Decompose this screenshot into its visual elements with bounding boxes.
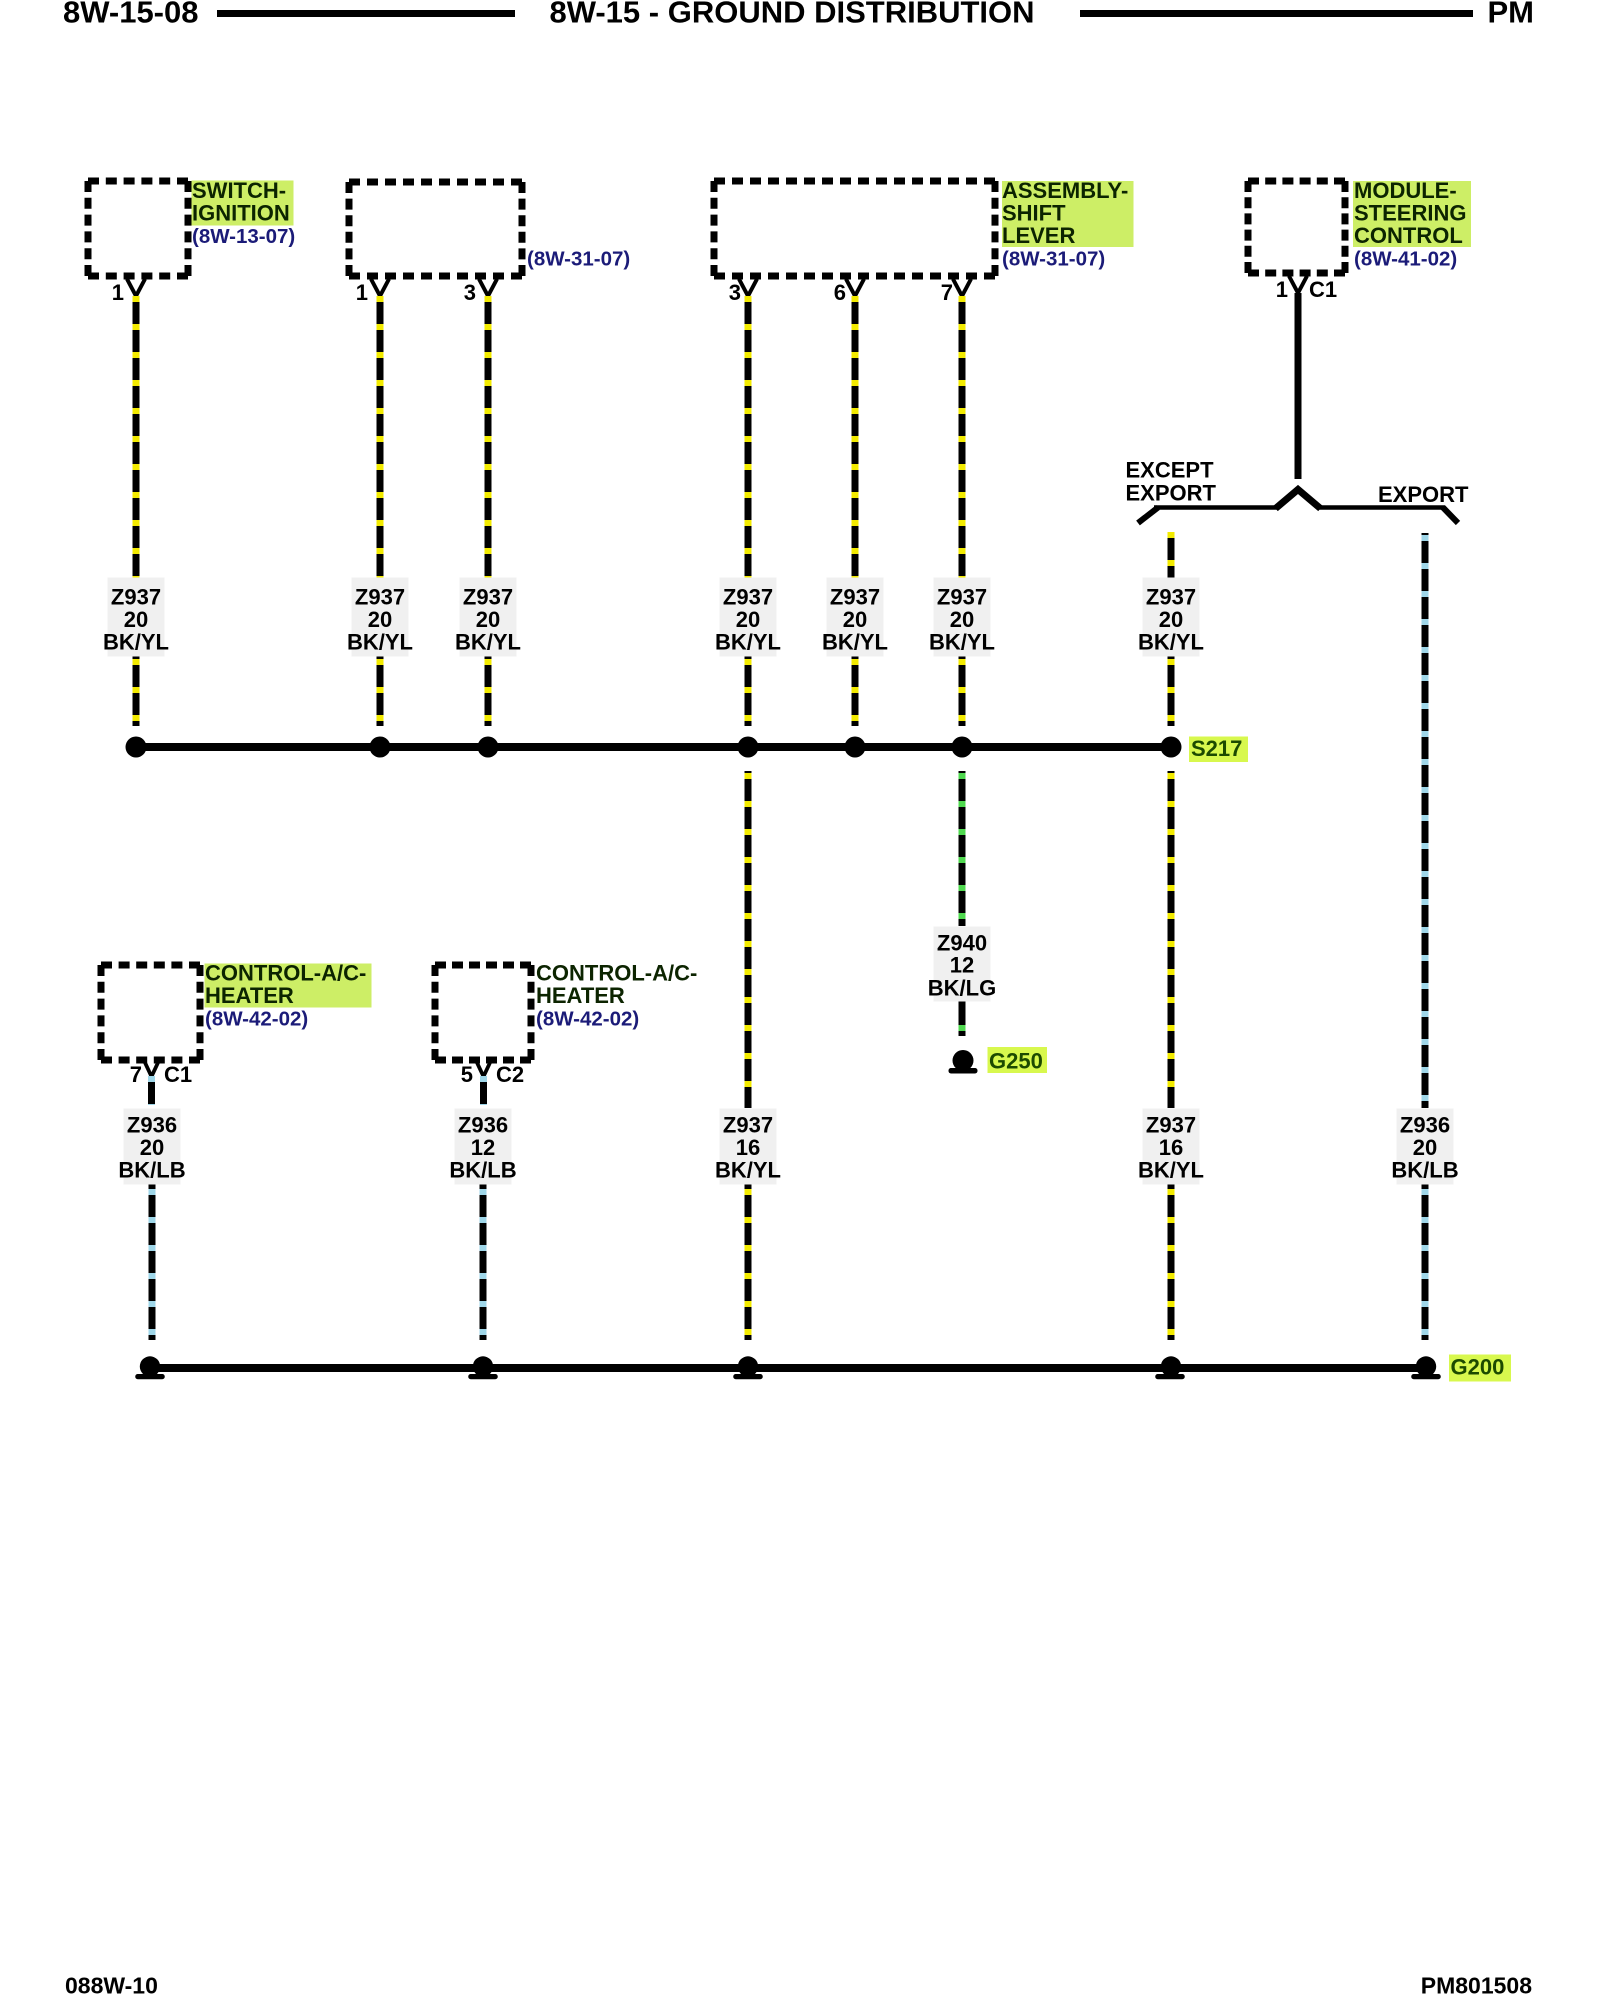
wire Z937 BK/YL except-export branch lower — [1168, 656, 1175, 726]
wire Z936 12 BK/LB from control-a/c-heater C2 upper — [480, 1076, 487, 1105]
junction dot x=380 — [370, 737, 391, 758]
header rule right — [1080, 10, 1473, 17]
svg-text:EXPORT: EXPORT — [1126, 481, 1217, 506]
wire Z937 16 BK/YL below S217 (x=1170) — [1168, 771, 1175, 1108]
svg-text:BK/YL: BK/YL — [822, 630, 888, 655]
svg-text:(8W-42-02): (8W-42-02) — [205, 1007, 308, 1030]
pin V terminal — [953, 279, 971, 296]
wire Z937 BK/YL pin3 shift lever lower — [745, 656, 752, 726]
connector box: CONTROL-A/C-HEATER C2 — [435, 965, 531, 1060]
pin V terminal — [846, 279, 864, 296]
wire label Z936 20 BK/LB (x=1425) — [1397, 1109, 1454, 1185]
ground label highlight G250 — [988, 1047, 1048, 1073]
svg-text:20: 20 — [140, 1135, 164, 1160]
svg-text:BK/LB: BK/LB — [118, 1158, 185, 1183]
wire Z937 BK/YL pin7 shift lever upper — [959, 296, 966, 578]
connector box: CONTROL-A/C-HEATER C1 — [101, 965, 200, 1060]
svg-text:1: 1 — [356, 280, 368, 305]
svg-text:12: 12 — [471, 1135, 495, 1160]
wire Z936 20 BK/LB export branch upper — [1422, 533, 1429, 1108]
junction dot x=1170 — [1161, 737, 1182, 758]
svg-text:BK/YL: BK/YL — [347, 630, 413, 655]
svg-text:7: 7 — [941, 280, 953, 305]
svg-text:7: 7 — [130, 1062, 142, 1087]
wire Z937 BK/YL pin3 box2 lower — [485, 656, 492, 726]
svg-text:(8W-42-02): (8W-42-02) — [536, 1007, 639, 1030]
svg-text:5: 5 — [461, 1062, 473, 1087]
wire label Z937 16 BK/YL (x=745) — [720, 1109, 777, 1185]
svg-text:LEVER: LEVER — [1002, 223, 1075, 248]
svg-text:PM: PM — [1488, 0, 1535, 30]
connector box: unnamed (8W-31-07) — [349, 182, 522, 276]
svg-text:8W-15-08: 8W-15-08 — [63, 0, 199, 30]
svg-text:C1: C1 — [164, 1062, 192, 1087]
svg-text:Z937: Z937 — [1146, 585, 1196, 610]
wire Z936 20 BK/LB from control-a/c-heater C1 upper — [148, 1076, 155, 1105]
svg-text:BK/YL: BK/YL — [455, 630, 521, 655]
svg-text:Z937: Z937 — [937, 585, 987, 610]
pin V terminal — [1289, 276, 1307, 293]
svg-text:ASSEMBLY-: ASSEMBLY- — [1002, 178, 1128, 203]
svg-text:Z937: Z937 — [355, 585, 405, 610]
pin V terminal — [127, 279, 145, 296]
ground G250 dome — [953, 1050, 974, 1071]
svg-text:BK/YL: BK/YL — [715, 1158, 781, 1183]
svg-text:Z936: Z936 — [127, 1113, 177, 1138]
svg-text:S217: S217 — [1191, 736, 1242, 761]
svg-text:20: 20 — [1413, 1135, 1437, 1160]
wire label Z937 20 BK/YL (x=962) — [934, 578, 991, 657]
junction dot x=745 — [738, 737, 759, 758]
ground dome x=745 — [738, 1356, 758, 1376]
svg-text:(8W-13-07): (8W-13-07) — [192, 225, 295, 248]
svg-text:20: 20 — [736, 607, 760, 632]
svg-text:EXPORT: EXPORT — [1378, 482, 1469, 507]
ground dome x=483 — [473, 1356, 493, 1376]
wire Z937 BK/YL pin1 switch-ignition lower — [133, 656, 140, 726]
svg-text:20: 20 — [368, 607, 392, 632]
label highlight CONTROL-A/C-HEATER — [205, 964, 372, 1008]
junction dot x=136 — [126, 737, 147, 758]
pin V terminal — [479, 279, 497, 296]
svg-text:G200: G200 — [1451, 1355, 1505, 1380]
junction dot x=962 — [952, 737, 973, 758]
svg-text:20: 20 — [476, 607, 500, 632]
wire label Z940 12 BK/LG (x=962) — [934, 927, 991, 1002]
header rule left — [217, 10, 515, 17]
svg-text:CONTROL-A/C-: CONTROL-A/C- — [536, 961, 697, 986]
svg-text:BK/YL: BK/YL — [929, 630, 995, 655]
svg-text:CONTROL-A/C-: CONTROL-A/C- — [205, 961, 366, 986]
svg-text:CONTROL: CONTROL — [1354, 223, 1463, 248]
svg-text:3: 3 — [729, 280, 741, 305]
connector box: MODULE-STEERING CONTROL — [1248, 181, 1345, 273]
wire label Z937 16 BK/YL (x=1170) — [1143, 1109, 1200, 1185]
svg-text:(8W-31-07): (8W-31-07) — [527, 248, 630, 271]
wire label Z937 20 BK/YL (x=855) — [827, 578, 884, 657]
svg-text:20: 20 — [1159, 607, 1183, 632]
pin V terminal — [476, 1061, 491, 1077]
svg-text:3: 3 — [464, 280, 476, 305]
svg-text:BK/YL: BK/YL — [103, 630, 169, 655]
wire label Z937 20 BK/YL (x=380) — [352, 578, 409, 657]
svg-text:20: 20 — [124, 607, 148, 632]
svg-text:BK/YL: BK/YL — [1138, 1158, 1204, 1183]
svg-text:Z936: Z936 — [1400, 1113, 1450, 1138]
svg-text:Z937: Z937 — [830, 585, 880, 610]
pin V terminal — [739, 279, 757, 296]
ground bus G200 — [150, 1364, 1426, 1372]
ground dome x=1426 — [1416, 1356, 1436, 1376]
connector box: ASSEMBLY-SHIFT LEVER — [714, 181, 995, 276]
svg-text:088W-10: 088W-10 — [65, 1973, 158, 1999]
svg-text:STEERING: STEERING — [1354, 200, 1466, 225]
wire Z937 BK/YL pin7 shift lever lower — [959, 656, 966, 726]
wire label Z936 12 BK/LB (x=483) — [455, 1109, 512, 1185]
svg-text:HEATER: HEATER — [536, 983, 625, 1008]
wire Z937 BK/YL pin6 shift lever upper — [852, 296, 859, 578]
wire Z940 BK/LG below label (x=962) — [959, 1001, 966, 1036]
svg-text:BK/LB: BK/LB — [1391, 1158, 1458, 1183]
pin V terminal — [371, 279, 389, 296]
wire Z937 16 BK/YL below label (x=1170) — [1168, 1184, 1175, 1340]
label highlight ASSEMBLY-SHIFT LEVER — [1002, 181, 1134, 247]
svg-text:Z937: Z937 — [723, 1113, 773, 1138]
label highlight MODULE-STEERING CONTROL — [1353, 181, 1471, 247]
svg-text:C2: C2 — [496, 1062, 524, 1087]
wire label Z937 20 BK/YL (x=136) — [108, 578, 165, 657]
svg-text:SHIFT: SHIFT — [1002, 200, 1066, 225]
ground G250 base bar — [949, 1068, 978, 1074]
branch brace except-export / export — [1138, 490, 1458, 524]
junction dot x=488 — [478, 737, 499, 758]
pin V terminal — [144, 1061, 159, 1077]
svg-text:BK/YL: BK/YL — [1138, 630, 1204, 655]
wire Z937 BK/YL pin3 shift lever upper — [745, 296, 752, 578]
svg-text:BK/LG: BK/LG — [928, 976, 996, 1001]
wire Z937 BK/YL pin1 box2 upper — [377, 296, 384, 578]
wire Z936 12 BK/LB from control-a/c-heater C2 lower — [480, 1184, 487, 1340]
wire Z936 20 BK/LB export branch lower — [1422, 1184, 1429, 1340]
svg-text:1: 1 — [1276, 277, 1288, 302]
svg-text:20: 20 — [950, 607, 974, 632]
svg-text:Z937: Z937 — [463, 585, 513, 610]
svg-text:PM801508: PM801508 — [1421, 1973, 1532, 1999]
svg-text:HEATER: HEATER — [205, 983, 294, 1008]
ground dome x=1170 — [1161, 1356, 1181, 1376]
junction dot x=855 — [845, 737, 866, 758]
connector box: SWITCH-IGNITION — [88, 181, 188, 276]
svg-text:Z937: Z937 — [723, 585, 773, 610]
wire Z937 BK/YL except-export branch upper — [1168, 532, 1175, 578]
svg-text:IGNITION: IGNITION — [192, 200, 290, 225]
ground label highlight G200 — [1449, 1355, 1511, 1382]
splice bus S217 — [136, 743, 1171, 751]
label highlight SWITCH-IGNITION — [192, 181, 294, 226]
wire Z937 BK/YL pin3 box2 upper — [485, 296, 492, 578]
wire label Z936 20 BK/LB (x=152) — [124, 1109, 181, 1185]
wire solid black from module-steering control pin 1 C1 — [1295, 293, 1302, 479]
svg-text:20: 20 — [843, 607, 867, 632]
wire Z936 20 BK/LB from control-a/c-heater C1 lower — [149, 1184, 156, 1340]
svg-text:12: 12 — [950, 953, 974, 978]
svg-text:16: 16 — [1159, 1135, 1183, 1160]
wire Z937 16 BK/YL below S217 (x=745) — [745, 771, 752, 1108]
svg-text:1: 1 — [112, 280, 124, 305]
svg-text:Z937: Z937 — [1146, 1113, 1196, 1138]
wire Z937 BK/YL pin6 shift lever lower — [852, 656, 859, 726]
svg-text:16: 16 — [736, 1135, 760, 1160]
svg-text:8W-15 - GROUND DISTRIBUTION: 8W-15 - GROUND DISTRIBUTION — [549, 0, 1034, 30]
wire Z937 16 BK/YL below label (x=745) — [745, 1184, 752, 1340]
svg-text:G250: G250 — [989, 1049, 1043, 1074]
svg-text:Z936: Z936 — [458, 1113, 508, 1138]
svg-text:MODULE-: MODULE- — [1354, 178, 1457, 203]
svg-text:6: 6 — [834, 280, 846, 305]
svg-text:C1: C1 — [1309, 277, 1337, 302]
svg-text:(8W-41-02): (8W-41-02) — [1354, 248, 1457, 271]
ground dome x=150 — [140, 1356, 160, 1376]
svg-text:BK/LB: BK/LB — [449, 1158, 516, 1183]
splice label highlight S217 — [1189, 737, 1248, 763]
svg-text:Z937: Z937 — [111, 585, 161, 610]
wire Z937 BK/YL pin1 box2 lower — [377, 656, 384, 726]
svg-text:EXCEPT: EXCEPT — [1126, 458, 1215, 483]
svg-text:BK/YL: BK/YL — [715, 630, 781, 655]
wire label Z937 20 BK/YL (x=1170) — [1143, 578, 1200, 657]
wire Z940 BK/LG below S217 (x=962) — [959, 771, 966, 926]
svg-text:SWITCH-: SWITCH- — [192, 178, 286, 203]
wire label Z937 20 BK/YL (x=745) — [720, 578, 777, 657]
wire Z937 BK/YL pin1 switch-ignition upper — [133, 296, 140, 578]
svg-text:(8W-31-07): (8W-31-07) — [1002, 248, 1105, 271]
wire label Z937 20 BK/YL (x=488) — [460, 578, 517, 657]
